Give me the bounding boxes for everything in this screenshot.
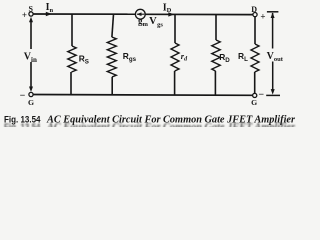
wire bottom rail <box>33 94 253 97</box>
wire r_d top lead <box>174 14 176 43</box>
resistor R_S <box>68 46 76 72</box>
Vin annotation arrow upper segment <box>30 20 32 50</box>
resistor R_gs <box>107 37 116 77</box>
svg-text:G: G <box>28 98 34 107</box>
Vout annotation bottom bar <box>266 94 280 96</box>
wire R_gs bottom lead <box>111 77 113 95</box>
arrow I_n on top rail <box>46 12 52 16</box>
wire R_L bottom lead <box>254 72 256 93</box>
node G right (open circle) <box>253 93 257 97</box>
Vout annotation arrow lower segment <box>272 62 274 93</box>
Vin annotation arrow lower segment <box>30 62 32 90</box>
arrow I_D on top rail <box>168 12 174 16</box>
Vout annotation arrow upper segment <box>272 13 274 49</box>
wire R_S top lead <box>71 14 73 46</box>
node D (open circle) <box>253 13 257 17</box>
wire R_gs top lead <box>112 14 114 37</box>
svg-text:G: G <box>251 98 257 107</box>
svg-text:Fig. 13.54: Fig. 13.54 <box>4 114 41 125</box>
svg-text:AC Equivalent Circuit For Comm: AC Equivalent Circuit For Common Gate JF… <box>46 114 296 125</box>
node G left (open circle) <box>29 92 33 96</box>
svg-text:S: S <box>28 4 33 13</box>
node S (open circle) <box>29 12 33 16</box>
svg-text:−: − <box>258 90 264 101</box>
Vout annotation top bar <box>267 11 279 13</box>
svg-text:D: D <box>251 5 257 14</box>
wire top rail right segment (current source to D) <box>145 13 253 15</box>
current source internal arrow (points left) <box>137 13 144 15</box>
resistor R_D <box>212 40 220 71</box>
svg-text:−: − <box>20 90 26 101</box>
svg-text:+: + <box>260 11 265 21</box>
wire r_d bottom lead <box>174 71 176 95</box>
resistor R_L <box>251 44 259 72</box>
wire top rail left segment (S to current source) <box>33 13 136 15</box>
current source U1 (g_m V_gs) <box>135 9 145 19</box>
wire R_L top lead (from node D) <box>254 17 256 44</box>
wire R_D bottom lead <box>214 71 216 95</box>
wire R_D top lead <box>215 15 217 41</box>
caption ghost smear (scan bleed at bottom edge) <box>4 122 296 133</box>
svg-text:+: + <box>22 10 27 20</box>
wire R_S bottom lead <box>70 72 72 95</box>
resistor r_d <box>171 43 179 71</box>
